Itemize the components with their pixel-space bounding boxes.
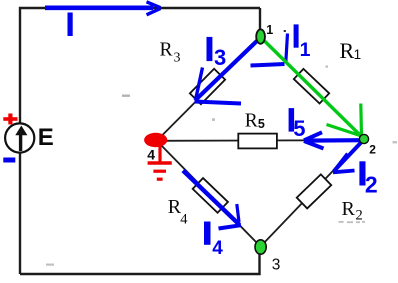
gray dotted line under R2: [339, 221, 365, 223]
wire node2 to node3 (R2 branch): [261, 140, 363, 247]
tiny gray dot near R1 wire: [326, 66, 329, 68]
faint gray dash artifact left-middle: [122, 95, 130, 97]
svg-text:4: 4: [180, 212, 188, 228]
plus sign (red): [3, 114, 17, 125]
black speck near I1: [284, 30, 286, 32]
node 3: [255, 240, 266, 254]
current I5 arrow on R5 branch pointing left: [304, 132, 361, 148]
label I: [68, 13, 73, 37]
wire node4 to node3 (R4 branch): [157, 141, 260, 246]
svg-text:E: E: [38, 124, 54, 151]
node 1: [256, 29, 265, 43]
wire stub top into node 1: [259, 8, 261, 31]
resistor R4: [193, 178, 228, 213]
current I arrow (blue, top wire): [45, 2, 161, 15]
label I1: [294, 24, 299, 47]
label I4: [204, 222, 211, 245]
svg-text:R: R: [340, 38, 355, 63]
voltage source E circle: [5, 123, 34, 152]
minus sign (blue): [3, 158, 15, 163]
svg-text:4: 4: [212, 238, 223, 259]
label I5: [289, 108, 295, 132]
svg-text:R: R: [245, 110, 258, 131]
wire top from E loop corner to node 1 drop: [20, 8, 260, 274]
wire bottom from bottom-left corner to node 3 stub: [20, 251, 260, 274]
node 4 (red): [144, 133, 167, 147]
svg-text:2: 2: [369, 143, 376, 157]
svg-text:3: 3: [174, 51, 181, 66]
ground at node 4 (red): [148, 146, 172, 179]
label I2: [359, 161, 365, 185]
wire node4 to node2 (R5 branch): [157, 139, 363, 142]
resistor R3: [190, 69, 225, 104]
svg-text:3: 3: [272, 256, 281, 273]
svg-text:2: 2: [365, 171, 378, 197]
svg-text:5: 5: [293, 116, 305, 141]
svg-text:R: R: [160, 39, 173, 60]
current I4 arrow on node4-node3 branch: [183, 171, 241, 229]
green current arrow node1 to node2: [263, 39, 363, 137]
wire node1 to node2 (R1 branch): [261, 37, 364, 139]
svg-text:3: 3: [214, 45, 226, 70]
svg-text:4: 4: [147, 147, 155, 163]
current I2 arrow on node2-node3 branch: [333, 142, 362, 173]
resistor R2: [297, 174, 332, 208]
svg-text:1: 1: [354, 47, 362, 62]
node 2: [359, 134, 368, 143]
svg-text:R: R: [342, 198, 356, 220]
svg-text:1: 1: [300, 39, 311, 61]
svg-text:1: 1: [266, 23, 273, 37]
current I3 arrow along node1-node4 branch: [195, 38, 261, 104]
resistor R1: [294, 69, 329, 104]
wire node1 to node4 (R3 branch): [157, 37, 261, 141]
voltage source arrow: [19, 133, 22, 151]
resistor R5: [238, 134, 277, 149]
tiny gray dash right edge: [393, 141, 398, 143]
svg-text:5: 5: [258, 117, 265, 131]
label I3: [207, 37, 213, 61]
faint gray dot artifact near R3: [212, 118, 215, 121]
current I1 arrowhead near node1-node2 branch: [251, 34, 288, 66]
faint gray smudge bottom left: [46, 264, 54, 266]
